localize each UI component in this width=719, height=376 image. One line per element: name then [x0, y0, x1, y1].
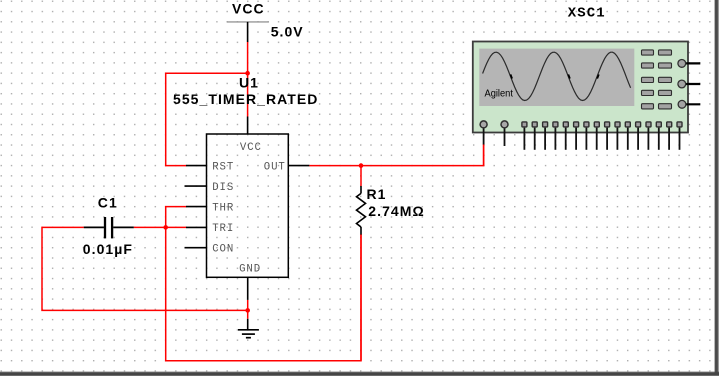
- wire C1 left to ground net: [42, 227, 248, 310]
- U1 pin DIS stub: [185, 185, 207, 187]
- svg-text:TRI: TRI: [212, 223, 234, 235]
- svg-text:Agilent: Agilent: [485, 88, 514, 99]
- scope trace: [483, 52, 631, 100]
- wire OUT junction to R1 top: [360, 166, 362, 186]
- U1 pin RST stub: [186, 165, 207, 167]
- svg-text:THR: THR: [212, 202, 234, 214]
- scope knob 3: [682, 103, 700, 105]
- svg-text:VCC: VCC: [240, 142, 262, 154]
- op U1 555 timer body: [173, 75, 318, 278]
- node junction on VCC wire: [245, 71, 250, 76]
- page frame right: [714, 0, 719, 376]
- svg-text:U1: U1: [239, 75, 259, 91]
- wire THR down to bottom loop: [166, 207, 361, 361]
- capacitor C1: [83, 194, 134, 256]
- svg-text:C1: C1: [98, 194, 118, 210]
- wire OUT to scope: [309, 144, 483, 166]
- svg-text:GND: GND: [239, 263, 261, 275]
- svg-text:2.74MΩ: 2.74MΩ: [368, 203, 424, 219]
- svg-text:R1: R1: [367, 186, 387, 202]
- svg-text:OUT: OUT: [264, 161, 286, 173]
- oscilloscope XSC1: [473, 5, 701, 132]
- node junction OUT/R1: [359, 163, 364, 168]
- U1 pin TRI stub: [186, 226, 207, 228]
- scope knob 2: [682, 83, 701, 85]
- wire scope probe: [483, 145, 485, 166]
- svg-text:VCC: VCC: [232, 1, 265, 17]
- svg-text:5.0V: 5.0V: [271, 23, 304, 39]
- scope terminal legs: [484, 128, 680, 150]
- svg-text:RST: RST: [212, 161, 234, 173]
- ground: [238, 319, 259, 338]
- U1 pin CON stub: [185, 247, 207, 249]
- wire RST to VCC net: [166, 73, 248, 165]
- node junction THR/TRI: [163, 225, 168, 230]
- svg-text:XSC1: XSC1: [568, 5, 606, 21]
- scope knob 1: [682, 62, 701, 64]
- U1 pin THR stub: [186, 206, 207, 208]
- wire R1 bottom to loop: [360, 235, 362, 361]
- wire GND pin to ground: [247, 300, 249, 319]
- page frame bottom: [0, 371, 719, 376]
- svg-text:555_TIMER_RATED: 555_TIMER_RATED: [173, 91, 318, 107]
- power symbol VCC: [227, 1, 304, 42]
- svg-text:DIS: DIS: [212, 182, 234, 194]
- svg-text:0.01µF: 0.01µF: [83, 241, 133, 257]
- trace marker 3: [597, 74, 599, 78]
- U1 VCC pin stub: [247, 117, 249, 135]
- U1 pin GND stub: [247, 277, 249, 300]
- trace marker 1: [511, 74, 513, 78]
- scope BNC terminal 1: [480, 121, 487, 128]
- scope BNC terminal 2: [501, 121, 508, 128]
- scope pin connectors: [522, 122, 682, 127]
- resistor R1: [357, 186, 425, 235]
- trace marker 2: [568, 74, 570, 78]
- svg-text:CON: CON: [212, 244, 234, 256]
- node junction on GND wire: [245, 308, 250, 313]
- wire TRI to capacitor: [134, 226, 186, 228]
- wire VCC to U1 pin VCC: [247, 42, 249, 117]
- scope buttons: [642, 50, 672, 109]
- U1 pin OUT stub: [288, 165, 309, 167]
